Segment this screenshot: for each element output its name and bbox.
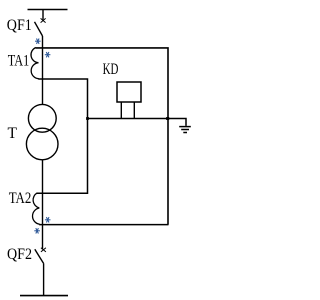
svg-text:T: T	[8, 125, 18, 142]
svg-text:KD: KD	[103, 61, 119, 78]
svg-text:TA2: TA2	[9, 190, 32, 207]
svg-text:TA1: TA1	[8, 53, 30, 70]
svg-text:QF2: QF2	[7, 246, 32, 263]
svg-text:QF1: QF1	[7, 17, 32, 34]
